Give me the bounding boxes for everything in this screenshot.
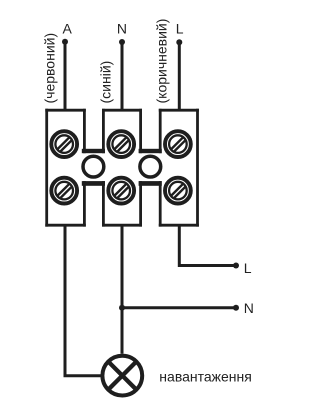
svg-text:N: N [117, 21, 127, 37]
svg-text:L: L [244, 260, 252, 276]
svg-text:(коричневий): (коричневий) [154, 19, 170, 104]
svg-text:(синій): (синій) [97, 61, 113, 104]
svg-text:навантаження: навантаження [159, 369, 252, 385]
svg-text:N: N [244, 300, 254, 316]
svg-text:L: L [176, 21, 184, 37]
svg-text:A: A [63, 21, 73, 37]
svg-text:(червоний): (червоний) [42, 33, 58, 104]
